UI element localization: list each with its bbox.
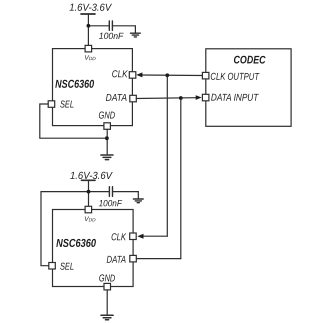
svg-text:SEL: SEL bbox=[60, 262, 74, 273]
svg-text:1.6V-3.6V: 1.6V-3.6V bbox=[69, 3, 112, 14]
svg-text:1.6V-3.6V: 1.6V-3.6V bbox=[70, 171, 113, 182]
svg-text:CLK: CLK bbox=[111, 232, 127, 243]
svg-text:GND: GND bbox=[99, 111, 116, 122]
svg-text:SEL: SEL bbox=[60, 99, 74, 110]
svg-text:100nF: 100nF bbox=[99, 198, 123, 208]
svg-text:NSC6360: NSC6360 bbox=[56, 238, 96, 250]
svg-text:CODEC: CODEC bbox=[234, 54, 267, 66]
svg-text:100nF: 100nF bbox=[99, 31, 124, 41]
svg-text:GND: GND bbox=[99, 273, 115, 284]
svg-text:DATA: DATA bbox=[107, 255, 127, 266]
svg-text:CLK: CLK bbox=[112, 69, 129, 80]
svg-text:NSC6360: NSC6360 bbox=[55, 79, 94, 91]
svg-text:DATA INPUT: DATA INPUT bbox=[211, 93, 259, 104]
svg-text:DATA: DATA bbox=[106, 93, 128, 104]
svg-text:VDD: VDD bbox=[84, 55, 96, 62]
svg-text:CLK OUTPUT: CLK OUTPUT bbox=[210, 72, 259, 83]
svg-text:VDD: VDD bbox=[84, 216, 96, 223]
